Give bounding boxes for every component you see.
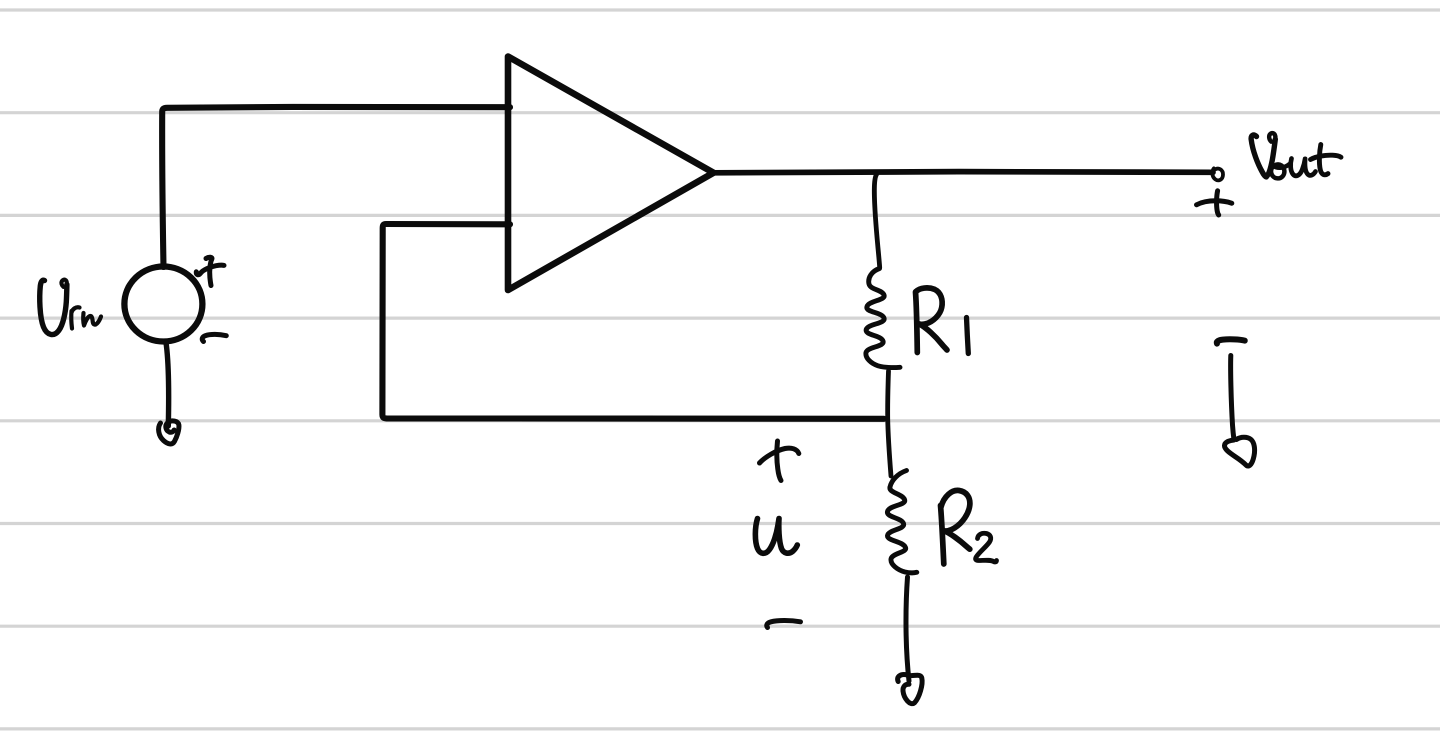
label + (source polarity) [206,257,212,285]
label Vout [1251,135,1275,177]
ground arrow below source [159,421,179,444]
label Uin [40,280,67,334]
reference mark (stroke with loop) right side [1224,356,1254,467]
wire: R1 to node (junction with feedback) to R2 [888,371,891,476]
ground arrow below R2 [898,675,922,704]
label R1 [916,292,918,353]
label + (above u) [777,441,781,481]
wire: output node down to R1 [874,175,879,268]
resistor R2 [887,471,916,573]
reference mark (dash) right side [1217,339,1245,343]
label - (below u) [767,621,801,628]
wire: feedback from node between R1/R2 to inverting input [382,224,884,419]
resistor R1 [866,269,900,368]
voltage source Uin circle [124,267,202,342]
label - (source polarity) [202,334,226,341]
wire: source bottom to ground [166,343,169,427]
op-amp U1 [508,57,714,291]
wire: R2 to ground arrow [906,577,909,681]
label + (Vout polarity) [1217,191,1219,215]
label u (voltage across R2) [755,519,797,554]
Vout terminal (open circle) [1212,168,1223,180]
label R2 [941,506,944,565]
wire: source top to op-amp non-inverting input [162,107,510,267]
wire: op-amp output to Vout terminal [713,172,1213,173]
